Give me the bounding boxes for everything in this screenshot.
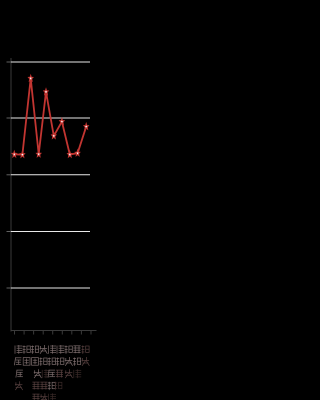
y-axis tick 2 [7,117,12,119]
x-axis category label 7: 敌对情 (vertical CJK text) [65,346,73,379]
y-axis tick 5 [7,287,12,289]
data point marker 5 [44,89,48,95]
x-axis category label 1: 焦虑症状 (vertical CJK text) [14,345,23,390]
x-axis category label 8: 恐怖倾 (vertical CJK text) [73,346,81,378]
y-axis tick 3 [7,174,12,176]
data point marker 4 [37,151,41,157]
x-axis category label 5: 精神病性格 (vertical CJK text) [48,345,56,400]
data point marker 1 [12,151,16,157]
horizontal gridline 1 [11,61,90,63]
data point marker 6 [52,133,56,139]
x-axis category label 6: 睡眠障碍 (vertical CJK text) [54,345,64,390]
y-axis line [10,58,12,332]
x-axis ticks [15,331,92,335]
x-axis category label 2: 强迫 (vertical CJK text) [23,346,31,366]
data point marker 8 [68,151,72,157]
x-axis line [11,330,97,332]
x-axis category label 9: 偏执 (vertical CJK text) [82,346,90,366]
horizontal gridline 2 [11,117,90,119]
data point marker 7 [60,119,64,125]
y-axis tick 4 [7,231,12,233]
horizontal gridline 3 [11,174,90,176]
chart background [0,0,100,400]
data point marker 9 [75,150,79,156]
data series polyline [14,78,86,154]
data point marker 3 [29,75,33,81]
data point marker 2 [20,152,24,158]
x-axis category label 3: 抑郁症状倾 (vertical CJK text) [31,346,41,400]
data point marker 10 [84,124,88,130]
x-axis category label 4: 人际关系紧 (vertical CJK text) [40,345,50,400]
y-axis tick 1 [7,61,12,63]
horizontal gridline 5 [11,287,90,289]
horizontal gridline 4 [11,231,90,233]
